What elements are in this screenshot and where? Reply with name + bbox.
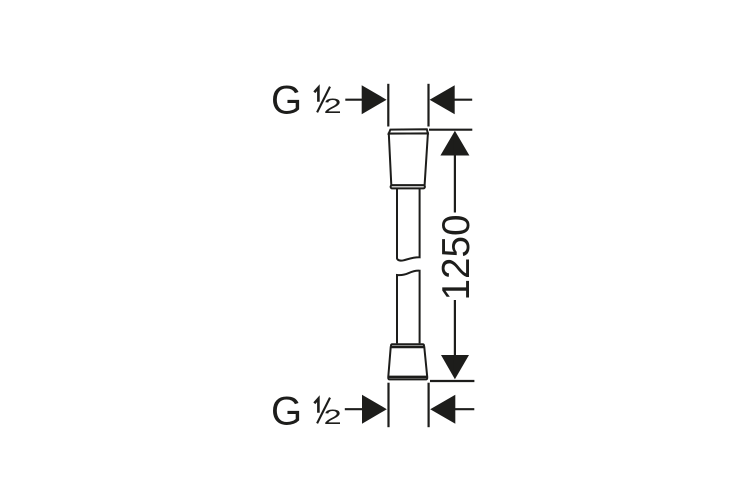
top dimension line, right segment <box>453 99 473 101</box>
top dimension arrow left (points right) <box>362 85 387 114</box>
hose upper segment with break wave <box>397 189 420 261</box>
right dimension arrow down <box>441 355 469 379</box>
right dimension line upper segment <box>454 140 456 213</box>
right dimension top extension line <box>429 129 472 131</box>
top connector cone body <box>389 133 428 185</box>
bottom dimension line, right segment <box>453 408 474 410</box>
top dimension arrow right (points left) <box>430 85 455 114</box>
top extension line left <box>387 84 389 127</box>
top connector top face (bevel band) <box>389 129 428 133</box>
right dimension line lower segment <box>454 300 456 370</box>
bottom dimension line, left segment <box>345 408 364 410</box>
bottom extension line left <box>387 383 389 428</box>
bottom dimension arrow right (points left) <box>430 395 455 424</box>
right dimension bottom extension line <box>430 380 474 382</box>
bottom connector top cap <box>391 344 424 347</box>
right dimension arrow up <box>440 131 469 156</box>
bottom connector cone body <box>388 347 427 376</box>
top connector bottom cap <box>391 185 425 188</box>
svg-text:G: G <box>271 390 302 434</box>
svg-text:G: G <box>271 79 302 123</box>
bottom connector bottom band <box>388 377 427 379</box>
svg-text:1250: 1250 <box>435 215 478 301</box>
top extension line right <box>427 84 429 127</box>
label G 1/2 (bottom thread size) <box>271 390 342 434</box>
bottom dimension arrow left (points right) <box>362 395 387 424</box>
top dimension line, left segment <box>345 99 364 101</box>
svg-text:2: 2 <box>324 93 342 118</box>
hose lower segment with break wave <box>397 271 420 344</box>
svg-text:2: 2 <box>324 404 342 429</box>
label G 1/2 (top thread size) <box>271 79 342 123</box>
bottom extension line right <box>428 383 430 428</box>
